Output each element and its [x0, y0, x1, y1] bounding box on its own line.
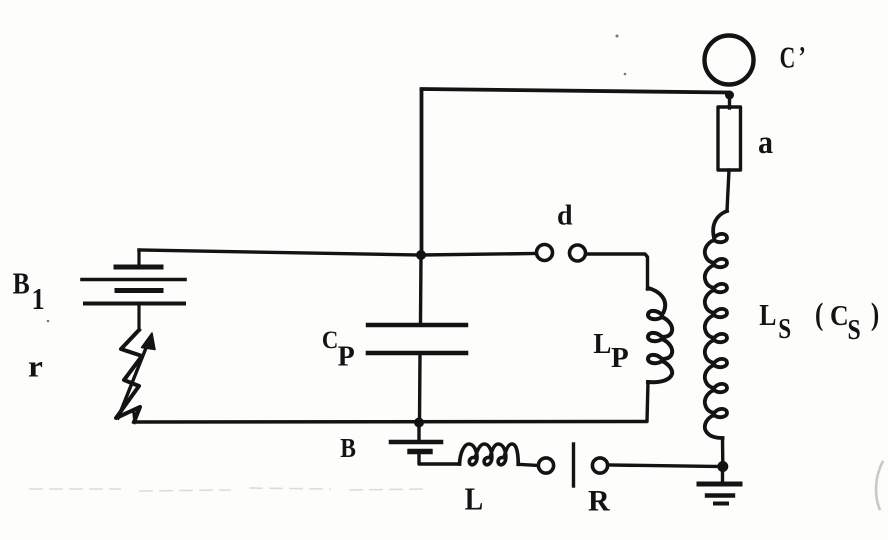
junction node at ground	[717, 461, 728, 472]
svg-text:r: r	[28, 349, 43, 384]
label L	[465, 482, 484, 517]
spark gap R	[538, 444, 607, 486]
wire: node to resistor a	[728, 95, 731, 108]
ground (earth)	[699, 466, 740, 504]
svg-text:C: C	[830, 300, 849, 332]
detector C'	[705, 36, 754, 85]
svg-text:C: C	[780, 40, 796, 75]
svg-text:a: a	[758, 124, 773, 161]
junction node at center	[416, 250, 426, 260]
wire: center junction to spark gap d	[421, 254, 536, 256]
svg-text:(: (	[815, 297, 823, 333]
wire: spark gap R to ground junction	[608, 465, 722, 467]
capacitor Cp	[368, 325, 466, 353]
svg-text:C: C	[322, 327, 338, 354]
label Cp	[322, 327, 355, 373]
wire: spark gap d to Lp top	[586, 254, 648, 289]
wire: center junction up	[420, 90, 424, 255]
label R	[588, 485, 610, 518]
inductor Lp	[648, 288, 672, 382]
svg-text:L: L	[465, 482, 484, 517]
battery B	[391, 423, 441, 452]
label a	[758, 124, 773, 161]
svg-text:B: B	[340, 434, 356, 464]
svg-text:d: d	[557, 200, 573, 231]
svg-text:P: P	[611, 342, 629, 374]
junction node at Cp bottom	[414, 418, 424, 428]
svg-text:’: ’	[799, 40, 806, 73]
svg-text:R: R	[588, 485, 610, 518]
wire: inductor L to spark gap R	[518, 464, 538, 465]
label B	[340, 434, 356, 464]
svg-text:L: L	[593, 328, 611, 360]
svg-text:S: S	[848, 313, 861, 346]
svg-text:P: P	[338, 342, 355, 373]
inductor Ls	[705, 211, 727, 438]
spark gap d	[537, 245, 586, 262]
svg-text:L: L	[759, 299, 776, 333]
variable resistor r	[116, 330, 155, 422]
wire: Lp bottom to bottom horizontal	[647, 382, 648, 421]
wire: Cp to bottom junction	[418, 355, 422, 422]
svg-text:): )	[871, 297, 879, 333]
junction node below C'	[725, 91, 734, 100]
wire: Ls bottom to ground junction	[721, 438, 725, 466]
label Ls (Cs)	[759, 297, 879, 346]
label r	[28, 349, 43, 384]
inductor L	[460, 444, 519, 465]
svg-text:B: B	[13, 268, 30, 302]
label Lp	[593, 328, 628, 374]
label d	[557, 200, 573, 231]
wire: battery B to inductor L	[419, 453, 460, 464]
battery B1	[82, 250, 185, 330]
wire: top horizontal	[422, 89, 729, 93]
svg-text:1: 1	[32, 282, 45, 317]
wire: a to Ls top	[727, 170, 729, 211]
label C'	[780, 40, 806, 75]
label B1	[13, 268, 45, 317]
wire: center junction down to Cp	[419, 255, 423, 323]
wire: battery B1 top to center junction	[139, 250, 421, 255]
svg-text:S: S	[778, 313, 791, 345]
resistor a	[718, 107, 741, 170]
wire: r bottom to Lp bottom (bottom middle horizontal)	[134, 413, 646, 422]
